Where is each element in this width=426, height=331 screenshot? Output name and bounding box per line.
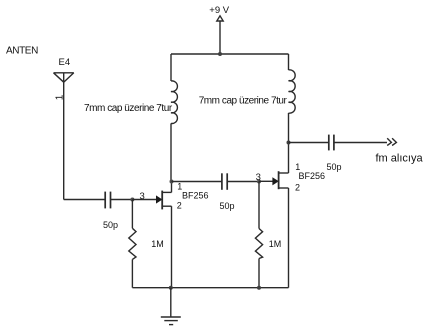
svg-text:BF256: BF256 bbox=[299, 171, 326, 181]
svg-text:+9 V: +9 V bbox=[209, 5, 229, 16]
svg-text:BF256: BF256 bbox=[182, 190, 209, 200]
wire: coil L2 to output node bbox=[288, 113, 290, 143]
transistor Q2 BF256 bbox=[272, 143, 325, 288]
antenna E4 bbox=[54, 57, 74, 82]
capacitor C3 50p (output) bbox=[327, 135, 342, 172]
node: ground rail junction right bbox=[257, 286, 261, 290]
svg-text:7mm cap üzerine 7tur: 7mm cap üzerine 7tur bbox=[199, 96, 288, 107]
node: Q1 gate junction bbox=[130, 198, 134, 202]
transistor Q1 BF256 bbox=[156, 182, 209, 288]
svg-text:3: 3 bbox=[140, 191, 145, 202]
svg-text:2: 2 bbox=[295, 183, 300, 193]
wire: gate node to Q2 bbox=[259, 180, 273, 182]
wire: coil L1 to Q1 drain node bbox=[170, 123, 172, 181]
wire: right branch from rail to coil bbox=[288, 54, 290, 70]
resistor R2 1M (right) bbox=[255, 182, 281, 288]
wire: antenna horizontal to C1 bbox=[64, 199, 105, 201]
svg-text:2: 2 bbox=[177, 201, 182, 211]
inductor L2 7mm cap üzerine 7tur bbox=[199, 70, 295, 113]
wire: antenna lead down bbox=[63, 73, 65, 200]
svg-text:E4: E4 bbox=[59, 57, 71, 68]
resistor R1 1M (left) bbox=[129, 200, 164, 288]
capacitor C2 50p (interstage) bbox=[220, 173, 235, 211]
svg-text:fm alıcıya: fm alıcıya bbox=[376, 153, 424, 165]
node: Q1 drain junction bbox=[170, 180, 174, 184]
node: ground rail junction left bbox=[169, 286, 173, 290]
wire: output node to C3 bbox=[289, 142, 329, 144]
wire: C3 to output arrow bbox=[334, 142, 387, 144]
inductor L1 7mm cap üzerine 7tur bbox=[84, 81, 177, 124]
svg-text:50p: 50p bbox=[103, 220, 118, 230]
capacitor C1 50p (antenna coupling) bbox=[103, 192, 118, 230]
wire: Q1 drain to C2 bbox=[172, 181, 222, 183]
svg-text:7mm cap üzerine 7tur: 7mm cap üzerine 7tur bbox=[84, 103, 173, 114]
svg-text:1M: 1M bbox=[151, 239, 164, 249]
wire: C2 to Q2 gate node bbox=[227, 181, 259, 183]
ground bbox=[161, 288, 181, 325]
wire: bottom ground rail bbox=[132, 287, 288, 289]
svg-text:1M: 1M bbox=[269, 239, 282, 249]
svg-text:ANTEN: ANTEN bbox=[6, 46, 38, 57]
node: output junction bbox=[287, 141, 291, 145]
wire: left branch from rail to coil bbox=[170, 54, 172, 81]
wire: top supply rail bbox=[171, 53, 289, 55]
node: Q2 gate junction bbox=[257, 180, 261, 184]
power +9V bbox=[209, 5, 229, 54]
wire: gate node to Q1 bbox=[132, 199, 156, 201]
svg-text:50p: 50p bbox=[220, 201, 235, 211]
output port chevrons to fm receiver bbox=[376, 138, 424, 164]
wire: C1 to gate node bbox=[111, 199, 133, 201]
node: rail / +9V junction bbox=[218, 52, 222, 56]
svg-text:50p: 50p bbox=[327, 162, 342, 172]
